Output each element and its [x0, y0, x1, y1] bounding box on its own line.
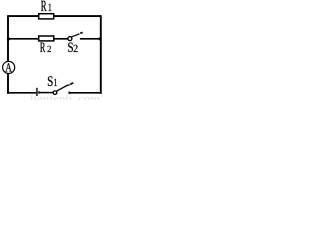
wire right [100, 15, 102, 94]
switch S1 handle tick [70, 83, 73, 84]
node right junction [99, 37, 102, 40]
wire bottom right [68, 92, 101, 94]
wire top [8, 15, 101, 17]
label S2 [68, 43, 73, 52]
label S1 [48, 76, 53, 86]
resistor R2 [39, 36, 54, 41]
wire left [7, 15, 9, 94]
switch S2 pivot [68, 37, 72, 41]
ammeter A [3, 61, 15, 73]
wire bottom mid (battery to S1) [39, 92, 53, 94]
resistor R1 [39, 14, 54, 19]
wire middle branch right [80, 38, 101, 40]
label R1 [41, 1, 47, 11]
switch S2 blade [71, 34, 80, 37]
svg-text:lianfenb. com: lianfenb. com [30, 93, 101, 100]
node left junction [7, 37, 10, 40]
label R2 [40, 43, 45, 52]
switch S1 fixed contact [69, 92, 71, 94]
battery long plate [36, 88, 38, 96]
battery short plate [38, 91, 39, 94]
switch S2 handle tick [80, 31, 82, 34]
switch S1 blade [56, 85, 70, 92]
switch S1 pivot [53, 91, 57, 95]
background [0, 0, 102, 100]
wire middle branch left [8, 38, 68, 40]
wire bottom left [7, 92, 36, 94]
